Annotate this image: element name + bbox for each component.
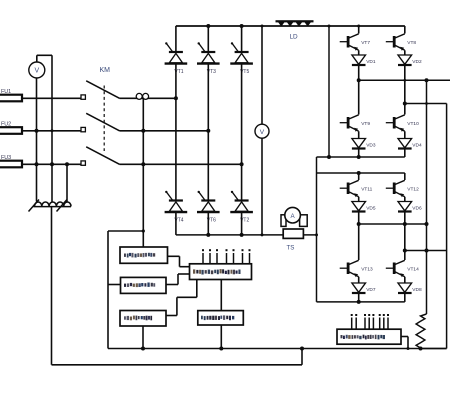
contactor KM linkage dashed: [103, 86, 105, 152]
left rail from top bus: [328, 26, 330, 157]
wire VD8 to inverter bottom bus: [404, 293, 406, 302]
svg-text:VT7: VT7: [361, 40, 370, 46]
wire VT4 to bottom bus: [175, 212, 177, 235]
junction blockE stub bottom: [219, 347, 223, 351]
wire feed3 to VT11: [358, 173, 360, 180]
voltmeter PV1 circle: [29, 62, 45, 78]
bottom dc bus: [176, 234, 317, 236]
wire emitter to diode VD7: [358, 277, 360, 283]
fuse FU3: [0, 155, 22, 168]
junction jog col2: [403, 102, 407, 106]
switch QS terminal square phase 2: [81, 127, 85, 131]
svg-text:VT13: VT13: [361, 267, 373, 273]
junction output3 col1: [357, 222, 361, 226]
left rail lower x319.5: [316, 173, 318, 302]
junction output1 trunkA: [425, 78, 429, 82]
junction bottom bus leg2: [206, 233, 210, 237]
diode VD3: [352, 139, 376, 149]
diode VD8: [398, 283, 422, 293]
svg-text:V: V: [34, 68, 39, 75]
switch QS blade phase 3: [86, 147, 119, 165]
wire VT6 to bottom bus: [207, 212, 209, 235]
wire emitter to diode VD5: [358, 197, 360, 202]
junction phase2 x36.5: [35, 129, 39, 133]
block F inverter gating unit: [337, 329, 401, 344]
junction phase2 x52: [51, 129, 54, 132]
svg-text:VD3: VD3: [366, 143, 376, 149]
junction tap y231: [142, 229, 145, 232]
wire VD1 to output1: [358, 65, 360, 80]
label LD: [290, 34, 299, 41]
svg-text:VT14: VT14: [407, 267, 419, 273]
wire VD2 down through jog: [404, 65, 406, 114]
junction W1 riser bottom: [300, 347, 304, 351]
junction output1 col1: [357, 78, 361, 82]
wire emitter to diode VD3: [358, 131, 360, 138]
junction phase3 x67: [65, 162, 69, 166]
svg-text:FU2: FU2: [1, 121, 11, 127]
wire block D to C staircase: [166, 280, 197, 316]
diode VD7: [352, 283, 376, 293]
junction leg 1 phase tap: [174, 96, 178, 100]
voltmeter PV2: [255, 124, 269, 138]
wire block B to D: [166, 274, 190, 285]
junction bus left rail: [328, 25, 331, 28]
transistor VT11: [340, 180, 373, 197]
junction phase3 x36.5: [35, 162, 39, 166]
jog line 4 col2 to trunkB: [405, 250, 447, 252]
svg-text:VD4: VD4: [412, 143, 422, 149]
wire block C bottom stub: [142, 326, 144, 349]
junction jog trunkA cross: [425, 102, 428, 105]
diode VD2: [398, 55, 422, 65]
wire col1 output1 to VT9: [358, 80, 360, 114]
transformer TV winding: [29, 200, 72, 212]
wire W1 riser: [301, 349, 303, 365]
switch QS terminal square phase 3: [81, 161, 85, 165]
junction output2 col1: [357, 155, 361, 159]
jog rail x319.5: [316, 157, 318, 173]
trunk A vertical: [426, 80, 428, 314]
transistor VT10: [386, 115, 419, 132]
inductor(2 circles) on phase 1: [136, 93, 148, 99]
svg-text:TS: TS: [287, 245, 295, 252]
svg-text:VT9: VT9: [361, 121, 370, 127]
rectifier leg 2 vertical: [207, 63, 209, 200]
thyristor VT5: [230, 42, 253, 75]
svg-text:VT12: VT12: [407, 187, 419, 193]
junction feed3 col1: [357, 171, 361, 175]
block B current regulator: [121, 277, 167, 293]
wire phase 2 from fuse to switch terminal: [22, 130, 81, 132]
junction jog4 trunkA: [425, 249, 429, 253]
wire W2 stub to block B: [108, 284, 121, 286]
wire phase 2 to rectifier leg 2: [120, 130, 209, 132]
switch QS blade phase 2: [86, 113, 119, 131]
wire block A to D: [168, 256, 190, 266]
fuse FU2: [0, 121, 22, 134]
wire voltmeter top bracket: [37, 55, 52, 62]
wire emitter to diode VD8: [404, 277, 406, 283]
junction out1 col2 cross: [403, 79, 406, 82]
diode VD4: [398, 139, 422, 149]
fuse FU1: [0, 89, 22, 101]
block F gate lead ticks: [351, 314, 389, 329]
wire W2 vertical: [107, 231, 109, 349]
junction blockC stub bottom: [141, 347, 145, 351]
transistor VT13: [340, 260, 373, 277]
junction bus voltmeter branch: [261, 25, 264, 28]
svg-text:VD6: VD6: [412, 206, 422, 212]
svg-text:VT10: VT10: [407, 121, 419, 127]
diode VD1: [352, 55, 376, 65]
transistor VT8: [386, 34, 417, 51]
junction bus inverter col1: [357, 25, 360, 28]
svg-text:KM: KM: [100, 67, 111, 74]
jog line col2 to trunkB: [405, 103, 447, 105]
wire emitter to diode VD1: [358, 50, 360, 55]
wire vertical sense C x=67: [66, 164, 68, 201]
inductor LD: [176, 20, 405, 26]
output line 1 to right edge: [359, 79, 450, 81]
wire dc voltmeter branch vertical: [261, 26, 263, 235]
junction leg 2 phase tap: [206, 129, 210, 133]
svg-text:VD1: VD1: [366, 59, 376, 65]
output line 2 (row2): [317, 156, 405, 158]
block E frequency control: [198, 311, 244, 325]
svg-text:FU3: FU3: [1, 155, 11, 161]
wire bottom control bus y348.5: [108, 348, 447, 350]
wire bus to thyristor VT5: [241, 26, 243, 52]
svg-text:FU1: FU1: [1, 89, 11, 95]
wire emitter to diode VD2: [404, 50, 406, 55]
output line 3 (row3): [359, 223, 427, 225]
wire W1 bottom horizontal: [52, 364, 303, 366]
wire phase 1 to rectifier leg 1: [120, 97, 176, 99]
junction output3 col2: [403, 222, 407, 226]
junction resistor bottom: [419, 347, 423, 351]
wire phase 1 from fuse to switch terminal: [22, 97, 81, 99]
resistor R load: [416, 314, 426, 349]
wire W1 vertical from TV: [51, 207, 53, 365]
block D trigger unit: [190, 264, 252, 280]
wire VT2 to bottom bus: [241, 212, 243, 235]
svg-text:VD5: VD5: [366, 206, 376, 212]
thyristor VT3: [197, 42, 220, 75]
inverter bottom bus: [317, 301, 405, 303]
wire VD4 to output2: [404, 147, 406, 157]
wire bus corner to VT8: [404, 26, 406, 34]
diode VD5: [352, 202, 376, 212]
junction output3 trunkA: [425, 222, 429, 226]
thyristor VT6: [197, 191, 220, 224]
svg-text:VT11: VT11: [361, 187, 372, 193]
svg-text:VD2: VD2: [412, 59, 422, 65]
wire col1 output3 to VT13: [358, 224, 360, 260]
wire bus to thyristor VT1: [175, 26, 177, 52]
label TS: [287, 245, 295, 252]
rectifier leg 1 vertical: [175, 63, 177, 200]
svg-text:VD8: VD8: [412, 287, 422, 293]
junction bus leg3: [240, 24, 244, 28]
junction bottom bus voltmeter: [261, 233, 264, 236]
current sensor TS: [281, 207, 307, 238]
wire W2 horizontal y231: [108, 230, 143, 232]
trunk B vertical: [446, 104, 448, 349]
wire phase 3 from fuse to switch terminal: [22, 163, 81, 165]
wire bus to VT7: [358, 26, 360, 34]
block D gate lead ticks: [202, 249, 251, 264]
wire phase 3 to rectifier leg 3: [120, 163, 242, 165]
thyristor VT1: [165, 42, 188, 75]
switch QS terminal square phase 1: [81, 95, 85, 99]
thyristor VT2: [230, 191, 253, 224]
junction busI col1: [357, 300, 361, 304]
diode VD6: [398, 202, 422, 212]
junction tap phase2: [141, 129, 145, 133]
feed line row3: [317, 172, 405, 174]
transistor VT14: [386, 260, 419, 277]
block A speed regulator: [120, 247, 168, 263]
svg-text:VT8: VT8: [407, 40, 416, 46]
wire bus to thyristor VT3: [207, 26, 209, 52]
wire feed3 corner to VT12: [404, 173, 406, 180]
junction jog4 col2: [403, 249, 407, 253]
rectifier leg 3 vertical: [241, 63, 243, 200]
junction blockF stub bottom: [407, 347, 410, 350]
wire block D to E vertical: [220, 280, 222, 311]
wire VD3 to output2: [358, 147, 360, 157]
contactor KM label: [100, 67, 111, 74]
top dc bus: [176, 25, 405, 27]
switch QS blade phase 1: [86, 81, 119, 99]
svg-text:V: V: [260, 129, 265, 136]
svg-text:VD7: VD7: [366, 287, 376, 293]
wire vertical sense B x=36.5: [36, 78, 38, 202]
wire vertical sense A x=52: [51, 55, 53, 201]
junction bottom bus leg3: [240, 233, 244, 237]
transistor VT7: [340, 34, 371, 51]
wire block F right stub: [401, 337, 408, 349]
trunk B bottom corner: [421, 348, 447, 350]
junction bus leg2: [206, 24, 210, 28]
junction rail bottom bus A-wire: [315, 233, 318, 236]
junction output2 rail: [327, 155, 331, 159]
wire block E bottom stub: [220, 325, 222, 349]
wire VD6 to output3: [404, 212, 406, 224]
wire VD5 to output3: [358, 212, 360, 224]
thyristor VT4: [165, 191, 188, 224]
wire emitter to diode VD6: [404, 197, 406, 202]
transistor VT12: [386, 180, 419, 197]
wire emitter to diode VD4: [404, 131, 406, 138]
svg-text:LD: LD: [290, 34, 299, 41]
block C voltage regulator: [120, 311, 166, 327]
wire VD7 to inverter bottom bus: [358, 293, 360, 302]
junction tap phase3: [141, 162, 145, 166]
junction phase3 x52: [50, 162, 54, 166]
transistor VT9: [340, 115, 371, 132]
wire col2 output3 to VT14: [404, 224, 406, 260]
junction leg 3 phase tap: [240, 162, 244, 166]
wire tap to trigger unit (vertical x=143.3): [142, 98, 144, 247]
